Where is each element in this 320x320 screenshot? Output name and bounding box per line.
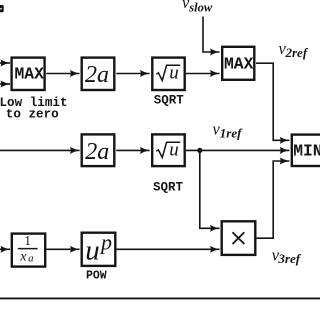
svg-text:SQRT: SQRT	[154, 93, 185, 107]
block SQRT1	[152, 58, 184, 90]
wire input a into MAX1	[0, 62, 10, 64]
wire POW to multiplier	[117, 248, 220, 250]
bottom rule	[0, 297, 320, 299]
wire MAX2 to MIN (v2ref)	[256, 63, 289, 140]
wire 2a to SQRT1	[116, 73, 149, 75]
wire row3 input into 1/xa	[0, 248, 10, 250]
fraction bar 1/xa	[18, 248, 38, 250]
svg-text:a: a	[28, 254, 33, 265]
block SQRT2	[152, 134, 185, 166]
svg-text:MAX: MAX	[224, 55, 254, 74]
block MAX1	[12, 58, 45, 90]
svg-text:2a: 2a	[85, 139, 109, 165]
svg-text:SQRT: SQRT	[153, 180, 184, 194]
svg-text:MIN: MIN	[293, 142, 320, 161]
svg-text:slow: slow	[188, 0, 213, 14]
wire 2a to SQRT2	[116, 149, 149, 151]
wire SQRT1 to MAX2	[186, 73, 220, 75]
junction node	[197, 148, 202, 153]
multiply cross	[233, 232, 245, 244]
wire node down into multiplier	[200, 150, 220, 228]
cut-off glyph top-left	[0, 5, 4, 12]
block MAX2	[222, 47, 254, 80]
svg-text:x: x	[19, 250, 27, 265]
svg-text:u: u	[169, 139, 179, 160]
svg-text:u: u	[85, 235, 100, 267]
block 2a (row1)	[82, 58, 115, 90]
svg-text:POW: POW	[86, 270, 107, 283]
wire MAX1 to 2a	[46, 73, 79, 75]
svg-text:2a: 2a	[85, 62, 109, 88]
svg-text:to zero: to zero	[6, 107, 59, 121]
svg-text:3ref: 3ref	[277, 251, 301, 266]
svg-text:MAX: MAX	[15, 64, 45, 83]
block u^p	[82, 233, 116, 266]
wire v_slow down into MAX2	[203, 17, 220, 53]
block multiplier	[222, 221, 256, 255]
wire input b into MAX1	[0, 83, 10, 85]
svg-text:2ref: 2ref	[285, 45, 309, 60]
wire SQRT2 to MIN (v1ref)	[186, 149, 289, 151]
wire multiplier to MIN (v3ref)	[257, 161, 290, 238]
block 2a (row2)	[82, 134, 115, 166]
svg-text:p: p	[99, 230, 112, 255]
radical sign SQRT1	[156, 65, 180, 80]
svg-text:1ref: 1ref	[220, 125, 243, 140]
wire 1/xa to POW	[47, 248, 80, 250]
wire row2 input into 2a	[0, 149, 80, 151]
radical sign SQRT2	[156, 142, 180, 157]
block 1/xa	[12, 234, 45, 267]
block MIN (cut at right edge)	[292, 135, 320, 166]
svg-text:u: u	[169, 62, 179, 83]
svg-text:1: 1	[24, 233, 31, 248]
